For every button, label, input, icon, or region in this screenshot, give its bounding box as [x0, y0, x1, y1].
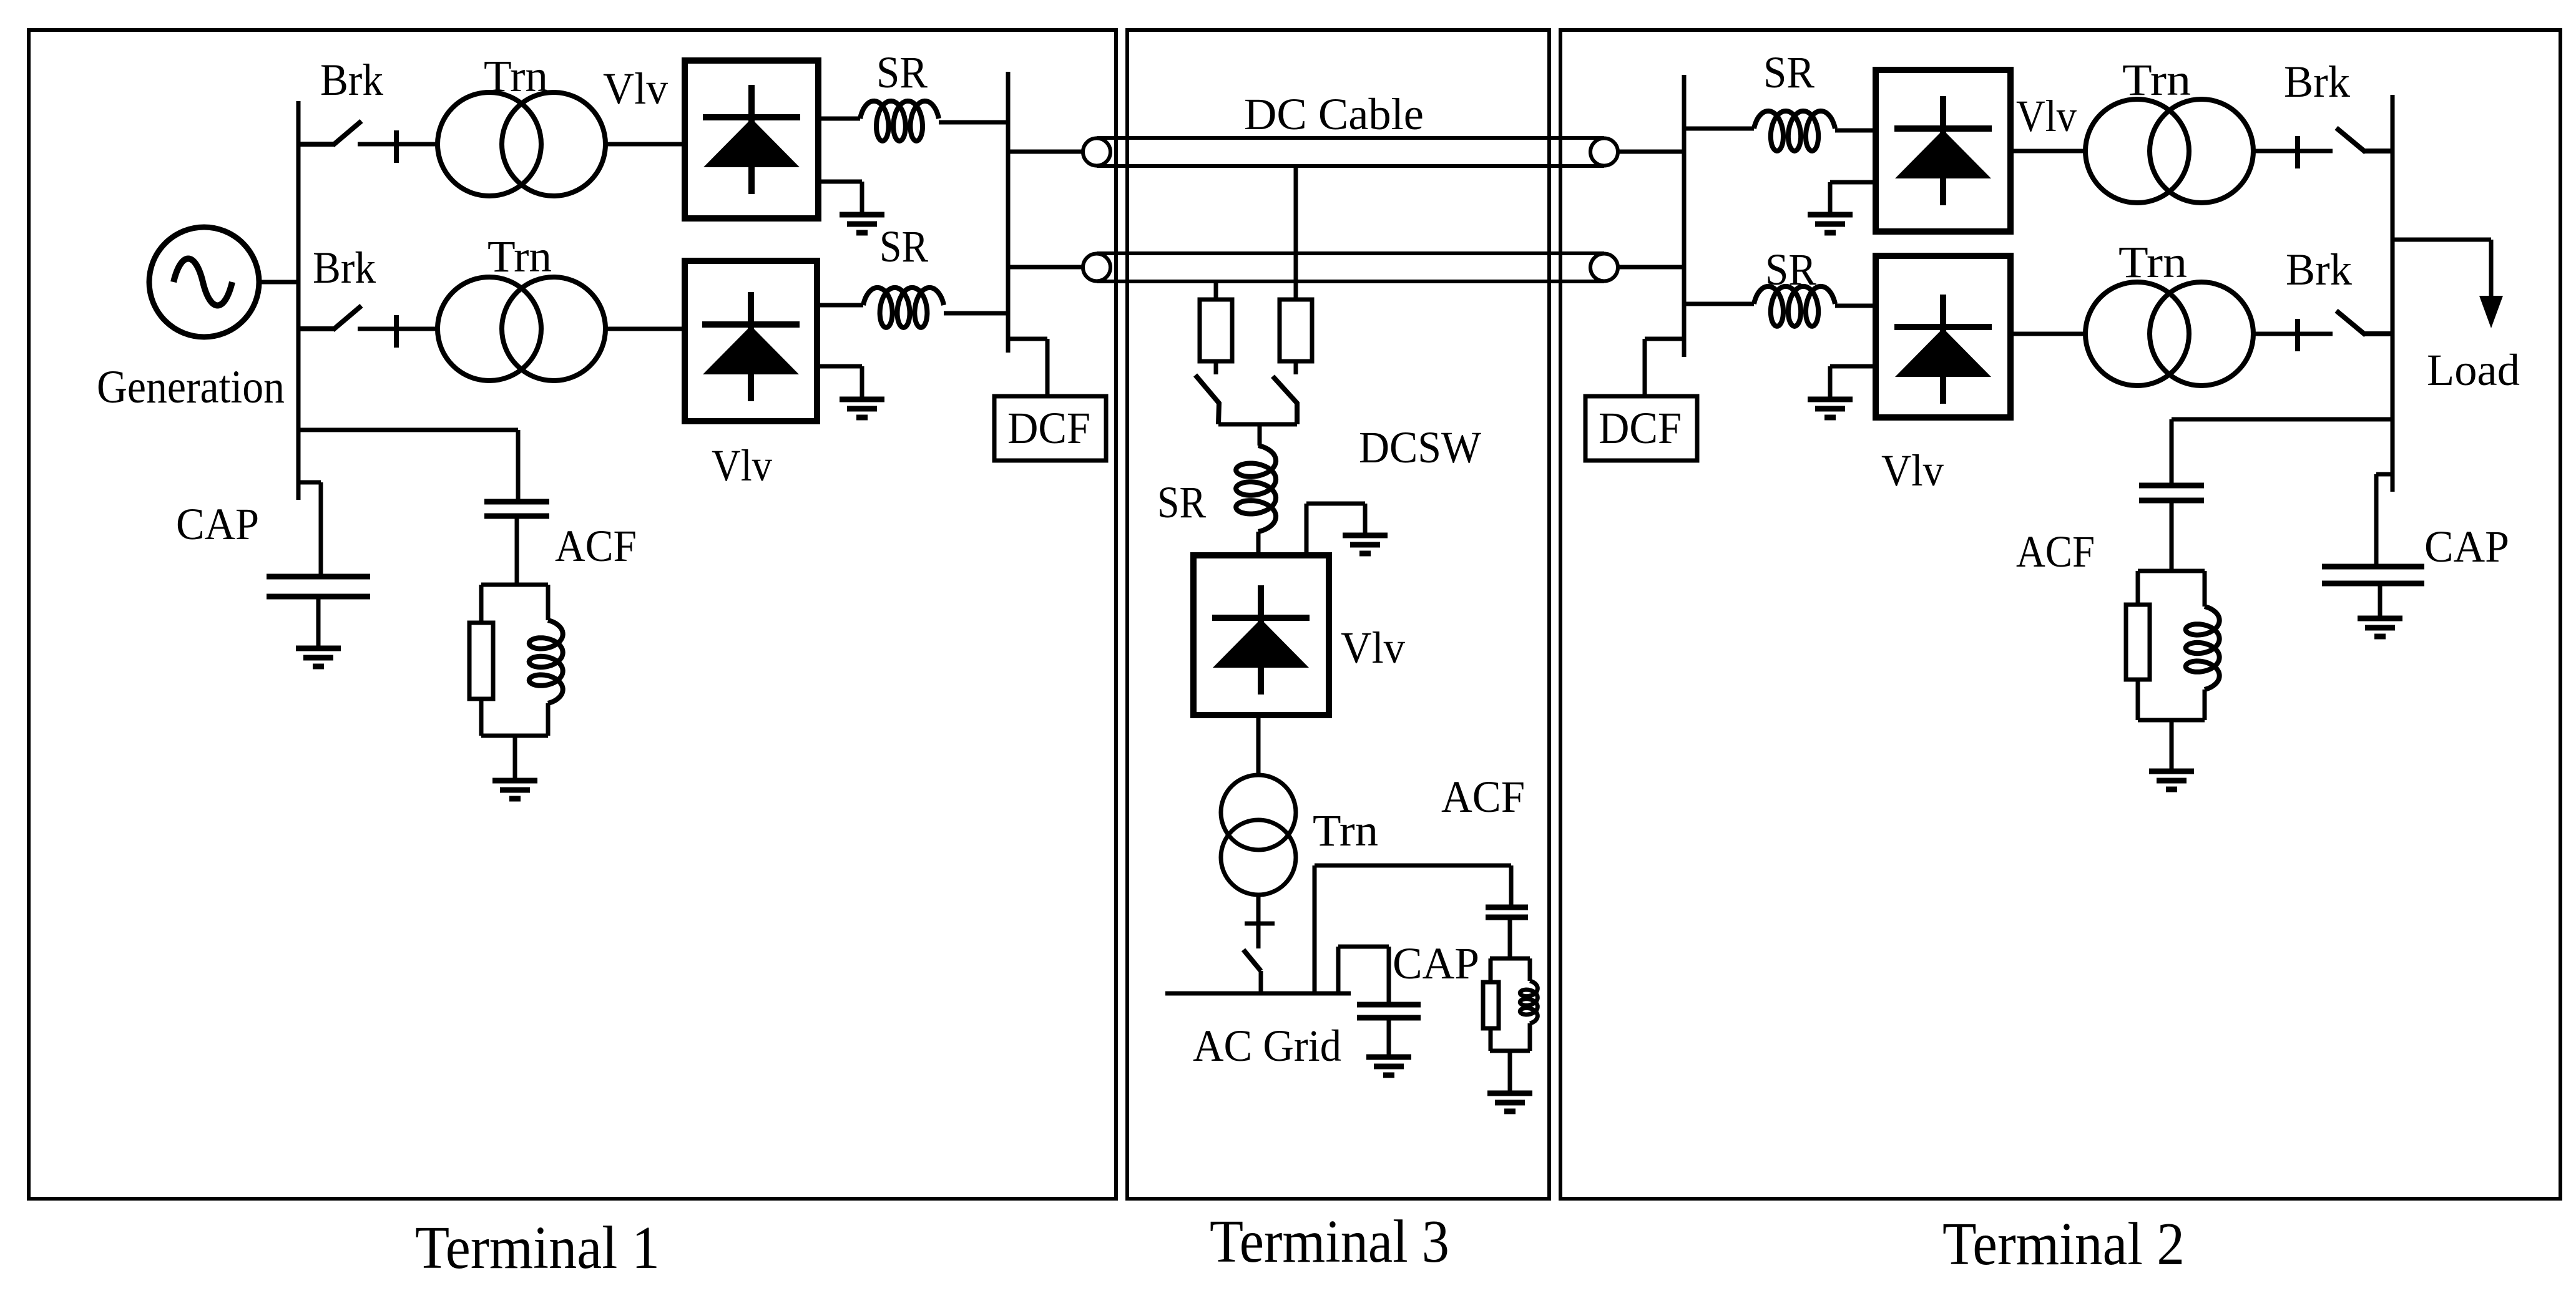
- wire: [2203, 690, 2207, 720]
- wire: [1387, 947, 1391, 1005]
- ground CAP T1: [296, 648, 341, 666]
- terminal 3 box: [1127, 30, 1549, 1199]
- svg-text:AC Grid: AC Grid: [1193, 1021, 1341, 1071]
- resistor DCSW-R2: [1280, 300, 1312, 361]
- breaker Brk T2 row1: [2255, 128, 2392, 168]
- wire: [298, 428, 518, 432]
- transformer Trn T2 row2: [2085, 282, 2253, 386]
- wire: [481, 734, 548, 738]
- capacitor CAP T3: [1357, 1005, 1421, 1018]
- capacitor ACF-C T3: [1486, 907, 1528, 917]
- resistor ACF-R T2: [2126, 605, 2150, 680]
- wire: [2252, 149, 2333, 154]
- transformer Trn T1 row2: [438, 277, 605, 381]
- wire: [1489, 1028, 1493, 1051]
- wire: [1338, 945, 1389, 949]
- wire: [1315, 864, 1511, 868]
- load arrow: [2479, 296, 2503, 328]
- wire: [1256, 895, 1261, 948]
- wire: [2378, 583, 2383, 618]
- ground T1 row2: [840, 399, 884, 417]
- inductor ACF-L T3: [1520, 981, 1537, 1023]
- svg-text:Trn: Trn: [484, 51, 548, 101]
- switch DCSW blade2: [1273, 376, 1297, 424]
- wire: [1256, 715, 1261, 776]
- wire: [1835, 129, 1876, 133]
- node AC busbar T2: [2391, 95, 2395, 492]
- svg-text:Vlv: Vlv: [1341, 623, 1405, 673]
- wire: [1528, 958, 1532, 981]
- wire: [1684, 127, 1754, 131]
- breaker blade T3: [1243, 950, 1261, 971]
- wire: [1008, 337, 1047, 341]
- svg-text:Trn: Trn: [2118, 237, 2187, 287]
- wire: [1256, 532, 1261, 555]
- smoothing reactor SR T3: [1236, 446, 1276, 532]
- wire: [860, 366, 864, 399]
- wire: [258, 280, 298, 285]
- svg-text:CAP: CAP: [2424, 522, 2509, 572]
- DC cable upper: [1083, 138, 1618, 166]
- resistor ACF-R T3: [1483, 982, 1499, 1028]
- node AC busbar T1: [296, 101, 301, 500]
- svg-text:Generation: Generation: [97, 361, 285, 413]
- capacitor CAP T1: [267, 577, 370, 597]
- wire: [1214, 281, 1218, 300]
- smoothing reactor SR T1 row1: [860, 101, 939, 141]
- wire: [1489, 958, 1493, 982]
- valve box Vlv T2 row2: [1876, 256, 2010, 417]
- wire: [1643, 339, 1647, 396]
- wire: [319, 482, 323, 577]
- ground T2 row2: [1808, 399, 1853, 417]
- thyristor U5: [1894, 295, 1992, 404]
- wire: [1363, 504, 1368, 535]
- wire: [1305, 504, 1309, 555]
- ground T2 row1: [1808, 215, 1853, 233]
- wire: [1828, 366, 1833, 399]
- svg-text:SR: SR: [1765, 245, 1816, 295]
- svg-text:DCSW: DCSW: [1359, 422, 1481, 472]
- wire: [481, 583, 548, 587]
- wire: [1294, 361, 1298, 374]
- wire: [1214, 361, 1218, 374]
- wire: [2170, 500, 2174, 571]
- wire: [1046, 339, 1050, 396]
- valve box Vlv T3: [1193, 555, 1329, 715]
- breaker Brk T1 row2: [298, 306, 439, 348]
- svg-text:CAP: CAP: [176, 499, 259, 549]
- ground ACF T2: [2149, 771, 2194, 789]
- node DC busbar T1: [1006, 72, 1011, 353]
- wire: [1645, 337, 1684, 341]
- smoothing reactor SR T2 row2: [1754, 286, 1835, 326]
- node DC busbar T2: [1682, 75, 1687, 357]
- wire: [1008, 265, 1083, 270]
- wire: [2170, 720, 2174, 771]
- wire: [817, 364, 862, 369]
- svg-text:Terminal 3: Terminal 3: [1210, 1208, 1449, 1275]
- wire: [479, 585, 484, 623]
- svg-text:Brk: Brk: [320, 55, 383, 105]
- wire: [2376, 472, 2392, 477]
- wire: [513, 736, 517, 781]
- svg-text:Vlv: Vlv: [1881, 446, 1944, 495]
- ground T1 row1: [840, 215, 884, 233]
- ground ACF T1: [492, 781, 537, 799]
- ground CAP T2: [2358, 618, 2402, 636]
- thyristor U2: [702, 292, 800, 401]
- wire: [1508, 917, 1512, 958]
- svg-text:Trn: Trn: [487, 232, 552, 281]
- capacitor CAP T2: [2322, 567, 2424, 583]
- thyristor U4: [1894, 96, 1992, 205]
- transformer Trn T1 row1: [438, 92, 605, 196]
- wire: [1306, 502, 1365, 506]
- wire: [817, 303, 863, 308]
- wire: [2136, 571, 2140, 605]
- svg-text:Vlv: Vlv: [603, 64, 668, 114]
- valve box Vlv T1 row2: [685, 261, 817, 421]
- resistor DCSW-R1: [1200, 300, 1232, 361]
- DC filter DCF T1: [994, 396, 1106, 461]
- wire: [944, 311, 1008, 316]
- wire: [1828, 182, 1833, 215]
- wire: [298, 480, 321, 485]
- wire: [1528, 1023, 1532, 1051]
- wire: [1387, 1018, 1391, 1057]
- smoothing reactor SR T1 row2: [863, 288, 944, 328]
- smoothing reactor SR T2 row1: [1754, 111, 1835, 151]
- wire: [2172, 417, 2392, 422]
- wire: [1490, 1049, 1530, 1053]
- ground CAP T3: [1366, 1057, 1411, 1075]
- svg-text:SR: SR: [1157, 477, 1206, 527]
- svg-text:ACF: ACF: [1441, 772, 1525, 822]
- svg-text:Vlv: Vlv: [2016, 91, 2077, 141]
- wire: [1490, 957, 1530, 961]
- resistor ACF-R T1: [469, 623, 493, 699]
- wire: [604, 327, 685, 331]
- wire: [604, 142, 685, 147]
- terminal 2 box: [1560, 30, 2560, 1199]
- svg-text:Brk: Brk: [313, 243, 376, 293]
- AC source Generation: [149, 227, 259, 337]
- svg-text:ACF: ACF: [2016, 527, 2095, 577]
- wire: [818, 180, 862, 184]
- inductor ACF-L T1: [529, 620, 563, 703]
- wire: [516, 430, 521, 502]
- terminal 1 box: [29, 30, 1116, 1199]
- svg-text:Terminal 1: Terminal 1: [415, 1214, 660, 1281]
- wire: [546, 703, 551, 736]
- wire: [1508, 1051, 1512, 1093]
- breaker Brk T2 row2: [2255, 311, 2392, 351]
- svg-text:SR: SR: [1763, 47, 1814, 97]
- wire: [1618, 150, 1684, 154]
- wire: [2010, 149, 2086, 154]
- wire: [1259, 971, 1263, 993]
- svg-text:Trn: Trn: [1313, 806, 1378, 855]
- wire: [1684, 302, 1754, 306]
- svg-text:Brk: Brk: [2284, 57, 2350, 107]
- wire: [515, 516, 519, 585]
- capacitor ACF-C T1: [484, 502, 549, 516]
- svg-text:DCF: DCF: [1599, 403, 1682, 453]
- svg-text:DCF: DCF: [1007, 403, 1090, 453]
- svg-text:Trn: Trn: [2122, 55, 2191, 105]
- wire: [2010, 332, 2086, 336]
- wire: [2489, 240, 2494, 298]
- transformer Trn T2 row1: [2085, 99, 2253, 203]
- breaker tick T3: [1245, 922, 1275, 926]
- svg-text:SR: SR: [879, 222, 928, 271]
- svg-text:DC Cable: DC Cable: [1244, 89, 1424, 139]
- wire: [2136, 680, 2140, 720]
- capacitor ACF-C T2: [2139, 485, 2204, 500]
- wire: [1336, 947, 1341, 993]
- svg-text:Vlv: Vlv: [712, 441, 772, 490]
- switch DCSW blade1: [1195, 375, 1219, 424]
- thyristor U1: [703, 85, 800, 194]
- wire: [1830, 180, 1876, 185]
- svg-text:Brk: Brk: [2286, 245, 2352, 295]
- valve box Vlv T2 row1: [1876, 70, 2010, 232]
- svg-text:Terminal 2: Terminal 2: [1942, 1211, 2185, 1277]
- wire: [1830, 364, 1876, 369]
- thyristor U3: [1212, 585, 1310, 695]
- breaker Brk T1 row1: [298, 121, 439, 163]
- inductor ACF-L T2: [2186, 607, 2220, 690]
- transformer Trn T3: [1221, 775, 1296, 895]
- wire: [2252, 332, 2333, 336]
- wire: [939, 120, 1008, 125]
- wire: [860, 182, 864, 215]
- wire: [2203, 571, 2207, 607]
- svg-text:Load: Load: [2427, 345, 2520, 395]
- wire: [1008, 150, 1083, 154]
- wire: [2374, 474, 2379, 567]
- ground T3 valve: [1343, 535, 1388, 553]
- wire: [2392, 238, 2491, 242]
- wire: [818, 117, 860, 121]
- wire: [2138, 569, 2205, 573]
- wire: [1509, 865, 1514, 907]
- wire: [1618, 265, 1684, 270]
- valve box Vlv T1 row1: [685, 61, 818, 218]
- wire: [1313, 865, 1317, 993]
- wire: [1218, 422, 1297, 427]
- wire: [1258, 424, 1262, 446]
- wire: [1835, 304, 1876, 308]
- wire: [316, 597, 321, 648]
- svg-text:SR: SR: [876, 47, 928, 97]
- DC filter DCF T2: [1585, 396, 1697, 461]
- svg-text:CAP: CAP: [1393, 938, 1479, 988]
- svg-text:ACF: ACF: [555, 521, 637, 571]
- wire: [2138, 718, 2205, 723]
- node AC Grid bus: [1165, 992, 1351, 996]
- wire: [2170, 419, 2174, 485]
- wire: [546, 585, 551, 620]
- wire: [1294, 166, 1298, 300]
- ground ACF T3: [1487, 1093, 1532, 1111]
- wire: [479, 699, 484, 736]
- DC cable lower: [1083, 253, 1618, 281]
